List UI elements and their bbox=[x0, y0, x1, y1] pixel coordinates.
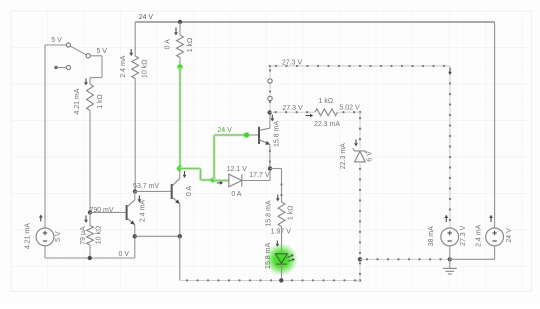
current source V1 bbox=[441, 228, 459, 246]
current arrow Q1 collector bbox=[183, 171, 187, 178]
transistor Q1 base wire bbox=[135, 190, 171, 192]
node junction at ground bbox=[358, 257, 362, 261]
wire LED cathode to bottom rail bbox=[281, 264, 283, 280]
label 5 V (S1 value) bbox=[55, 231, 62, 242]
label 38 mA (V1 current) bbox=[428, 226, 435, 247]
label 10 k-ohm (R2 value) bbox=[141, 59, 148, 77]
label 0 A (R3 current) bbox=[164, 39, 171, 49]
wire diode cathode to node 17.7 V bbox=[242, 169, 270, 181]
svg-text:12.1 V: 12.1 V bbox=[227, 166, 248, 173]
current arrow R2 bbox=[129, 49, 133, 56]
label 2.4 mA (V2 current) bbox=[475, 224, 482, 247]
voltage source V2 24 V bbox=[486, 228, 504, 246]
wire endpoint circle lower bbox=[268, 96, 272, 100]
label 27.3 V (R4 left node) bbox=[282, 105, 303, 112]
wire emitter rail bbox=[135, 235, 180, 237]
current arrow V1 bbox=[444, 215, 448, 222]
node junction LED bottom bbox=[279, 278, 283, 282]
svg-text:24 V: 24 V bbox=[217, 127, 232, 134]
wire (dotted) 27.3 V feed vertical bbox=[269, 66, 271, 113]
wire (dotted) 27.3 V top run bbox=[270, 65, 450, 67]
label 24 V (V2 voltage) bbox=[506, 228, 513, 243]
svg-text:15.8 mA: 15.8 mA bbox=[274, 121, 281, 147]
svg-text:1 kΩ: 1 kΩ bbox=[97, 94, 104, 109]
resistor R4 1 k&#937; bbox=[315, 109, 338, 116]
label 5 V (switch input node) bbox=[51, 37, 62, 44]
transistor Q2 collector bbox=[127, 191, 135, 206]
svg-text:0 A: 0 A bbox=[231, 191, 241, 198]
transistor Q2 base wire bbox=[90, 211, 126, 213]
svg-text:38 mA: 38 mA bbox=[428, 226, 435, 247]
transistor Q3 emitter bbox=[260, 140, 272, 169]
svg-text:10 kΩ: 10 kΩ bbox=[141, 59, 148, 77]
transistor Q3 (NPN) base stub bbox=[247, 134, 259, 136]
current arrow R5 bbox=[276, 195, 280, 202]
svg-text:79 µA: 79 µA bbox=[80, 226, 87, 245]
svg-text:1 kΩ: 1 kΩ bbox=[319, 98, 334, 105]
node junction R6 bottom bbox=[88, 256, 92, 260]
label 2.4 mA (Q2 current) bbox=[139, 200, 146, 223]
label 79 uA (R6 current) bbox=[80, 226, 87, 245]
wire 24 V top rail bbox=[135, 21, 494, 23]
node junction on top rail at R3 bbox=[178, 20, 182, 24]
svg-text:27.3 V: 27.3 V bbox=[282, 60, 303, 67]
switch SW1 (SPDT, thrown to lower contact) bbox=[54, 43, 90, 70]
label 12.1 V (diode anode) bbox=[227, 166, 248, 173]
current arrow R4 bbox=[306, 114, 314, 118]
green wire staircase node A to node B bbox=[180, 169, 214, 181]
svg-text:22.3 mA: 22.3 mA bbox=[314, 121, 340, 128]
current arrow V2 bbox=[489, 215, 493, 222]
wire left rail (switch to source S1) bbox=[44, 45, 46, 228]
label 22.3 mA (zener current) bbox=[340, 143, 347, 169]
wire V2 bottom to ground junction bbox=[450, 246, 495, 259]
svg-text:24 V: 24 V bbox=[506, 228, 513, 243]
node junction Q2 base bbox=[88, 210, 92, 214]
wire node 17.7 V to R5 bbox=[270, 169, 283, 203]
node ground junction bbox=[448, 257, 452, 261]
label 4.21 mA (R1 current) bbox=[74, 88, 81, 114]
voltage source S1 5 V bbox=[36, 228, 54, 246]
current arrow R3 bbox=[174, 28, 178, 36]
transistor Q2 emitter bbox=[127, 218, 135, 236]
svg-text:17.7 V: 17.7 V bbox=[249, 172, 270, 179]
svg-text:0 A: 0 A bbox=[164, 39, 171, 49]
ground symbol bbox=[443, 259, 457, 274]
label 1 k-ohm (R5 value) bbox=[288, 206, 295, 221]
wire (dotted) to source V1 bbox=[449, 66, 451, 228]
svg-text:4.21 mA: 4.21 mA bbox=[74, 88, 81, 114]
label 53.7 mV (Q1 base node) bbox=[133, 183, 159, 190]
resistor R6 10 k&#937; bbox=[87, 212, 94, 258]
label 790 mV (Q2 base node) bbox=[89, 207, 113, 214]
transistor Q2 bar bbox=[126, 205, 128, 220]
wire 0 V rail up to emitter rail bbox=[134, 236, 136, 258]
svg-text:15.8 mA: 15.8 mA bbox=[266, 200, 273, 226]
wire (dotted) junction to ground node bbox=[360, 258, 450, 260]
svg-text:5 V: 5 V bbox=[51, 37, 62, 44]
resistor R2 10 k&#937; bbox=[132, 22, 139, 191]
svg-text:4.21 mA: 4.21 mA bbox=[25, 223, 32, 249]
svg-text:0 A: 0 A bbox=[186, 186, 193, 196]
green node at Q3 base bbox=[243, 132, 250, 139]
current dot at R4 corner bbox=[359, 111, 362, 114]
diode D3 cathode bar bbox=[241, 174, 243, 187]
transistor Q1 bar bbox=[171, 184, 173, 199]
svg-text:53.7 mV: 53.7 mV bbox=[133, 183, 159, 190]
label 22.3 mA (R4 current) bbox=[314, 121, 340, 128]
node junction Q2 emitter bbox=[133, 234, 137, 238]
current arrow LED bbox=[276, 241, 280, 248]
transistor Q1 emitter bbox=[172, 197, 180, 236]
svg-text:5.02 V: 5.02 V bbox=[339, 105, 360, 112]
label 27.3 V (top run) bbox=[282, 60, 303, 67]
zener diode D2 cathode bar bbox=[353, 148, 367, 153]
current arrow into V1 branch bbox=[448, 68, 452, 76]
current arrow S1 bbox=[39, 215, 43, 222]
LED D1 glow bbox=[265, 243, 298, 276]
svg-text:24 V: 24 V bbox=[139, 14, 154, 21]
wire from left rail to switch pole bbox=[45, 44, 66, 46]
green node at R3 bottom bbox=[177, 64, 184, 71]
label 5 V (switch output node) bbox=[96, 48, 107, 55]
label 0 V (bottom rail) bbox=[118, 251, 129, 258]
LED D1 triangle bbox=[275, 254, 287, 264]
label 2.4 mA (R2 current) bbox=[120, 55, 127, 78]
wire endpoint circle upper bbox=[268, 79, 272, 83]
current arrow at diode anode bbox=[217, 181, 223, 185]
svg-text:27.3 V: 27.3 V bbox=[282, 105, 303, 112]
green node A (Q1 collector) bbox=[176, 165, 183, 172]
transistor Q3 bar bbox=[258, 127, 260, 144]
svg-text:2.4 mA: 2.4 mA bbox=[120, 55, 127, 78]
green wire corner to Q3 base bbox=[214, 134, 247, 137]
current arrow Q3 collector bbox=[270, 115, 274, 122]
node junction 27.3 V bbox=[268, 110, 272, 114]
wire (dotted) bottom return rail bbox=[180, 279, 360, 281]
green wire node B up to 24 V corner bbox=[213, 135, 216, 180]
svg-text:0 V: 0 V bbox=[118, 251, 129, 258]
node junction 17.7 V bbox=[268, 166, 272, 170]
label 0 A (diode current) bbox=[231, 191, 241, 198]
svg-text:1 kΩ: 1 kΩ bbox=[288, 206, 295, 221]
diode D3 triangle bbox=[229, 174, 242, 187]
current dot at feed corner bbox=[269, 65, 272, 68]
green wire R3 to Q1 collector node bbox=[179, 67, 182, 169]
resistor R1 1 k&#937; bbox=[87, 78, 94, 213]
LED D1 light rays bbox=[287, 254, 295, 261]
wire R4 to zener corner bbox=[338, 111, 362, 148]
svg-text:2.4 mA: 2.4 mA bbox=[139, 200, 146, 223]
label 24 V (top rail) bbox=[139, 14, 154, 21]
green wire node B to diode anode bbox=[213, 179, 228, 182]
svg-text:10 kΩ: 10 kΩ bbox=[95, 226, 102, 244]
wire top rail down to V2 bbox=[494, 22, 496, 228]
label 15.8 mA (Q3 current) bbox=[274, 121, 281, 147]
wire R5 to LED bbox=[281, 227, 283, 252]
label 24 V (green net) bbox=[217, 127, 232, 134]
label 0 A (Q1 current) bbox=[186, 186, 193, 196]
current arrow into zener bbox=[354, 140, 358, 147]
label 17.7 V (node) bbox=[249, 172, 270, 179]
label 15.8 mA (R5 current) bbox=[266, 200, 273, 226]
transistor Q3 collector bbox=[260, 113, 270, 131]
current arrow R6 bbox=[84, 216, 88, 224]
wire S1 bottom to 0 V rail bbox=[45, 246, 135, 258]
zener diode D2 triangle bbox=[355, 151, 366, 162]
node junction Q1 emitter bbox=[178, 234, 182, 238]
label 4.21 mA (S1 current) bbox=[25, 223, 32, 249]
svg-text:2.4 mA: 2.4 mA bbox=[475, 224, 482, 247]
current dot at return rail corner bbox=[359, 279, 362, 282]
label 27.3 V (V1 voltage) bbox=[460, 225, 467, 246]
resistor R3 1 k&#937; bbox=[177, 22, 184, 67]
current arrow R1 bbox=[84, 79, 88, 86]
current arrow Q2 collector bbox=[138, 196, 142, 203]
svg-text:27.3 V: 27.3 V bbox=[460, 225, 467, 246]
wire (dotted) zener to bottom rail bbox=[359, 162, 361, 281]
svg-text:5 V: 5 V bbox=[55, 231, 62, 242]
green node B (diode anode junction) bbox=[210, 177, 217, 184]
label 1 k-ohm (R4 value) bbox=[319, 98, 334, 105]
svg-text:15.8 mA: 15.8 mA bbox=[265, 243, 272, 269]
wire emitter rail down to bottom return bbox=[179, 236, 181, 280]
svg-text:1 kΩ: 1 kΩ bbox=[187, 38, 194, 53]
label 1.97 V (R5/LED node) bbox=[271, 228, 292, 235]
label 1 k-ohm (R1 value) bbox=[97, 94, 104, 109]
transistor Q1 collector bbox=[172, 170, 180, 186]
wire V1 bottom to ground junction bbox=[449, 246, 451, 259]
svg-text:5 V: 5 V bbox=[96, 48, 107, 55]
svg-text:6 V: 6 V bbox=[367, 151, 374, 162]
node junction Q1 base / Q2 collector bbox=[133, 189, 137, 193]
label 6 V (zener value) bbox=[367, 151, 374, 162]
label 5.02 V (R4 right node) bbox=[339, 105, 360, 112]
wire node to R4 bbox=[270, 111, 315, 113]
wire switch output to resistor R1 bbox=[90, 56, 102, 78]
label 1 k-ohm (R3 value) bbox=[187, 38, 194, 53]
label 15.8 mA (LED current) bbox=[265, 243, 272, 269]
label 10 k-ohm (R6 value) bbox=[95, 226, 102, 244]
svg-text:22.3 mA: 22.3 mA bbox=[340, 143, 347, 169]
resistor R5 1 k&#937; bbox=[278, 202, 285, 227]
